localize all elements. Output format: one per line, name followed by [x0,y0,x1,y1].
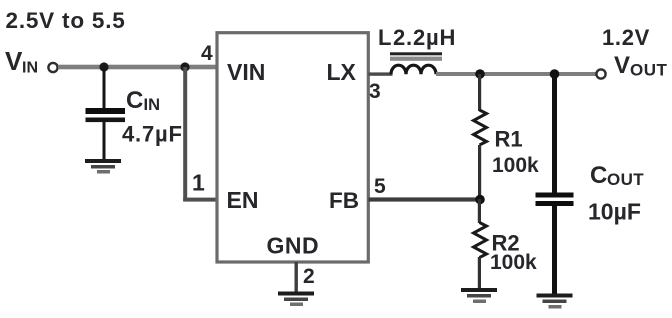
pin FB label [329,188,359,213]
terminal VOUT (open circle) [596,69,605,78]
wire EN branch vertical [183,67,187,201]
svg-text:L: L [378,25,391,50]
wire CIN top lead [103,67,106,108]
wire LX output rail [436,72,596,76]
ground U1 GND [278,292,314,307]
terminal VIN (open circle) [48,63,57,72]
label output voltage 1.2V [602,25,650,50]
node VIN terminal label [5,46,38,77]
inductor L1 core bars [390,52,442,61]
pin LX label [327,59,357,85]
svg-text:V: V [5,46,23,76]
svg-text:VIN: VIN [227,59,265,85]
label L1 value 2.2uH [378,25,456,50]
inductor L1 coil [391,65,436,74]
label CIN [126,87,160,114]
svg-text:EN: EN [227,187,259,213]
pin 5 number [374,175,386,198]
wire CIN bottom lead [103,122,106,159]
svg-text:OUT: OUT [607,170,644,189]
pin 3 number [369,80,381,103]
pin 2 number [303,265,315,288]
svg-text:OUT: OUT [630,61,668,80]
svg-text:2.5V to 5.5: 2.5V to 5.5 [6,8,126,33]
pin EN label [227,187,259,213]
capacitor COUT plates [536,193,574,207]
svg-text:V: V [614,52,630,79]
value COUT 10uF [588,199,641,225]
wire EN branch horizontal to pin 1 [183,198,217,202]
svg-text:1: 1 [192,170,205,196]
wire R2 bottom lead [478,257,481,288]
node VOUT terminal label [614,52,668,80]
value R1 100k [492,154,539,177]
node junction EN tap [180,62,189,71]
wire LX stub [369,72,393,75]
svg-text:4.7µF: 4.7µF [122,122,183,147]
pin VIN label [227,59,265,85]
node junction CIN tap [99,62,108,71]
ground R2 [461,288,497,303]
svg-text:GND: GND [267,232,320,258]
wire R1 top lead [478,74,481,111]
svg-text:4: 4 [201,42,213,65]
svg-text:LX: LX [327,59,357,85]
svg-text:FB: FB [329,188,359,213]
wire GND pin lead [295,262,298,292]
node junction FB divider [475,195,485,205]
ground CIN [85,159,121,174]
op-amp U1 regulator body [217,33,368,262]
wire VIN rail to U1 pin 4 [58,65,217,70]
wire COUT bottom lead [552,206,557,294]
value R2 100k [490,251,537,274]
ground COUT [537,294,573,309]
wire COUT top lead [552,72,557,193]
pin GND label [267,232,320,258]
label R1 [495,127,523,152]
svg-text:100k: 100k [490,251,537,274]
svg-text:100k: 100k [492,154,539,177]
label R2 [492,231,520,256]
svg-text:C: C [590,162,607,189]
label COUT [590,162,644,189]
svg-text:IN: IN [22,60,38,77]
wire R1 bottom lead [478,145,481,200]
svg-text:5: 5 [374,175,386,198]
label input voltage range [6,8,126,33]
resistor R2 zigzag [474,223,487,258]
svg-text:10µF: 10µF [588,199,641,225]
resistor R1 zigzag [474,110,487,145]
pin 4 number [201,42,213,65]
svg-text:2: 2 [303,265,315,288]
capacitor CIN plates [86,108,126,122]
node junction COUT tap [550,69,560,79]
node junction R1 tap [475,69,485,79]
svg-text:R1: R1 [495,127,523,152]
value CIN 4.7uF [122,122,183,147]
svg-text:2.2µH: 2.2µH [393,25,456,50]
wire FB to divider [369,197,481,201]
svg-text:3: 3 [369,80,381,103]
pin 1 number [192,170,205,196]
wire R2 top lead [478,199,481,223]
svg-text:C: C [126,87,143,114]
svg-text:1.2V: 1.2V [602,25,650,50]
svg-text:IN: IN [144,96,161,114]
